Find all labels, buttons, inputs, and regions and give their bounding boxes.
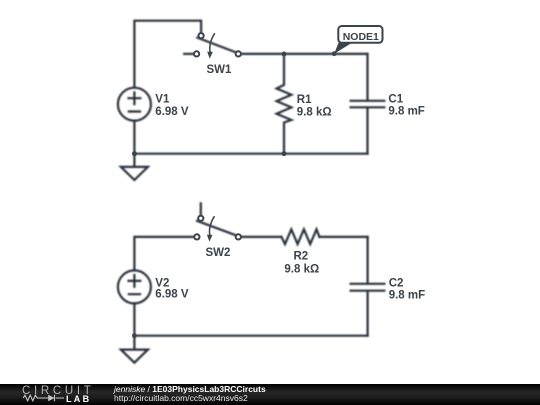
footer credit line 1 (114, 384, 266, 394)
wire bottom of bottom circuit (134, 335, 367, 337)
svg-text:C1: C1 (388, 93, 403, 105)
svg-text:R2: R2 (294, 251, 309, 263)
footer credit line 2 (114, 393, 248, 403)
switch SW2 (197, 203, 236, 235)
ground (top circuit) (121, 154, 148, 180)
svg-text:C2: C2 (389, 278, 404, 290)
capacitor C1 (351, 54, 385, 154)
wire SW1 left stub (184, 53, 194, 55)
resistor R2 (281, 229, 319, 244)
switch SW1 actuation arrow (210, 33, 215, 52)
svg-text:6.98 V: 6.98 V (155, 289, 189, 301)
svg-text:9.8 kΩ: 9.8 kΩ (297, 106, 332, 118)
node NODE1 flag (334, 26, 382, 54)
switch SW1 terminals (199, 33, 204, 38)
wire bottom of top circuit (134, 153, 367, 155)
CircuitLab logo symbol (resistor + diode) (20, 394, 70, 404)
node dot ground tap bottom circuit (132, 333, 137, 338)
CircuitLab logo LAB text (66, 394, 91, 404)
switch SW2 actuation arrow (209, 216, 214, 235)
SW1 blade (197, 38, 235, 53)
svg-text:9.8 mF: 9.8 mF (389, 289, 425, 301)
svg-text:9.8 kΩ: 9.8 kΩ (284, 264, 319, 276)
SW2 blade (197, 221, 236, 235)
node dot R1 top (282, 52, 287, 57)
voltage source V2 (118, 270, 151, 335)
wire SW2 to R2 (241, 236, 282, 238)
switch SW1 (184, 38, 235, 54)
svg-text:6.98 V: 6.98 V (155, 106, 189, 118)
resistor R1 (277, 54, 292, 154)
capacitor C2 (351, 237, 385, 336)
footer bar (0, 384, 540, 405)
svg-text:SW1: SW1 (207, 64, 233, 76)
svg-text:R1: R1 (297, 94, 312, 106)
wire SW1 to C1 corner (241, 53, 368, 55)
svg-text:V2: V2 (155, 278, 169, 290)
switch SW2 terminals (198, 216, 203, 221)
svg-text:9.8 mF: 9.8 mF (388, 106, 424, 118)
svg-text:NODE1: NODE1 (343, 31, 379, 43)
node dot NODE1 attach (332, 51, 337, 56)
node dot ground tap top circuit (132, 151, 137, 156)
wire V1 top to SW1 top terminal (134, 21, 201, 88)
wire SW2 top stub (200, 203, 202, 215)
voltage source V1 (118, 88, 151, 154)
node dot R1 bottom (282, 151, 287, 156)
svg-text:SW2: SW2 (206, 247, 231, 259)
wire R2 to C2 corner (319, 236, 367, 238)
CircuitLab logo wordmark (22, 385, 95, 397)
ground (bottom circuit) (121, 336, 148, 363)
svg-text:V1: V1 (155, 93, 170, 105)
wire V2 top to SW2 left terminal (134, 237, 194, 271)
